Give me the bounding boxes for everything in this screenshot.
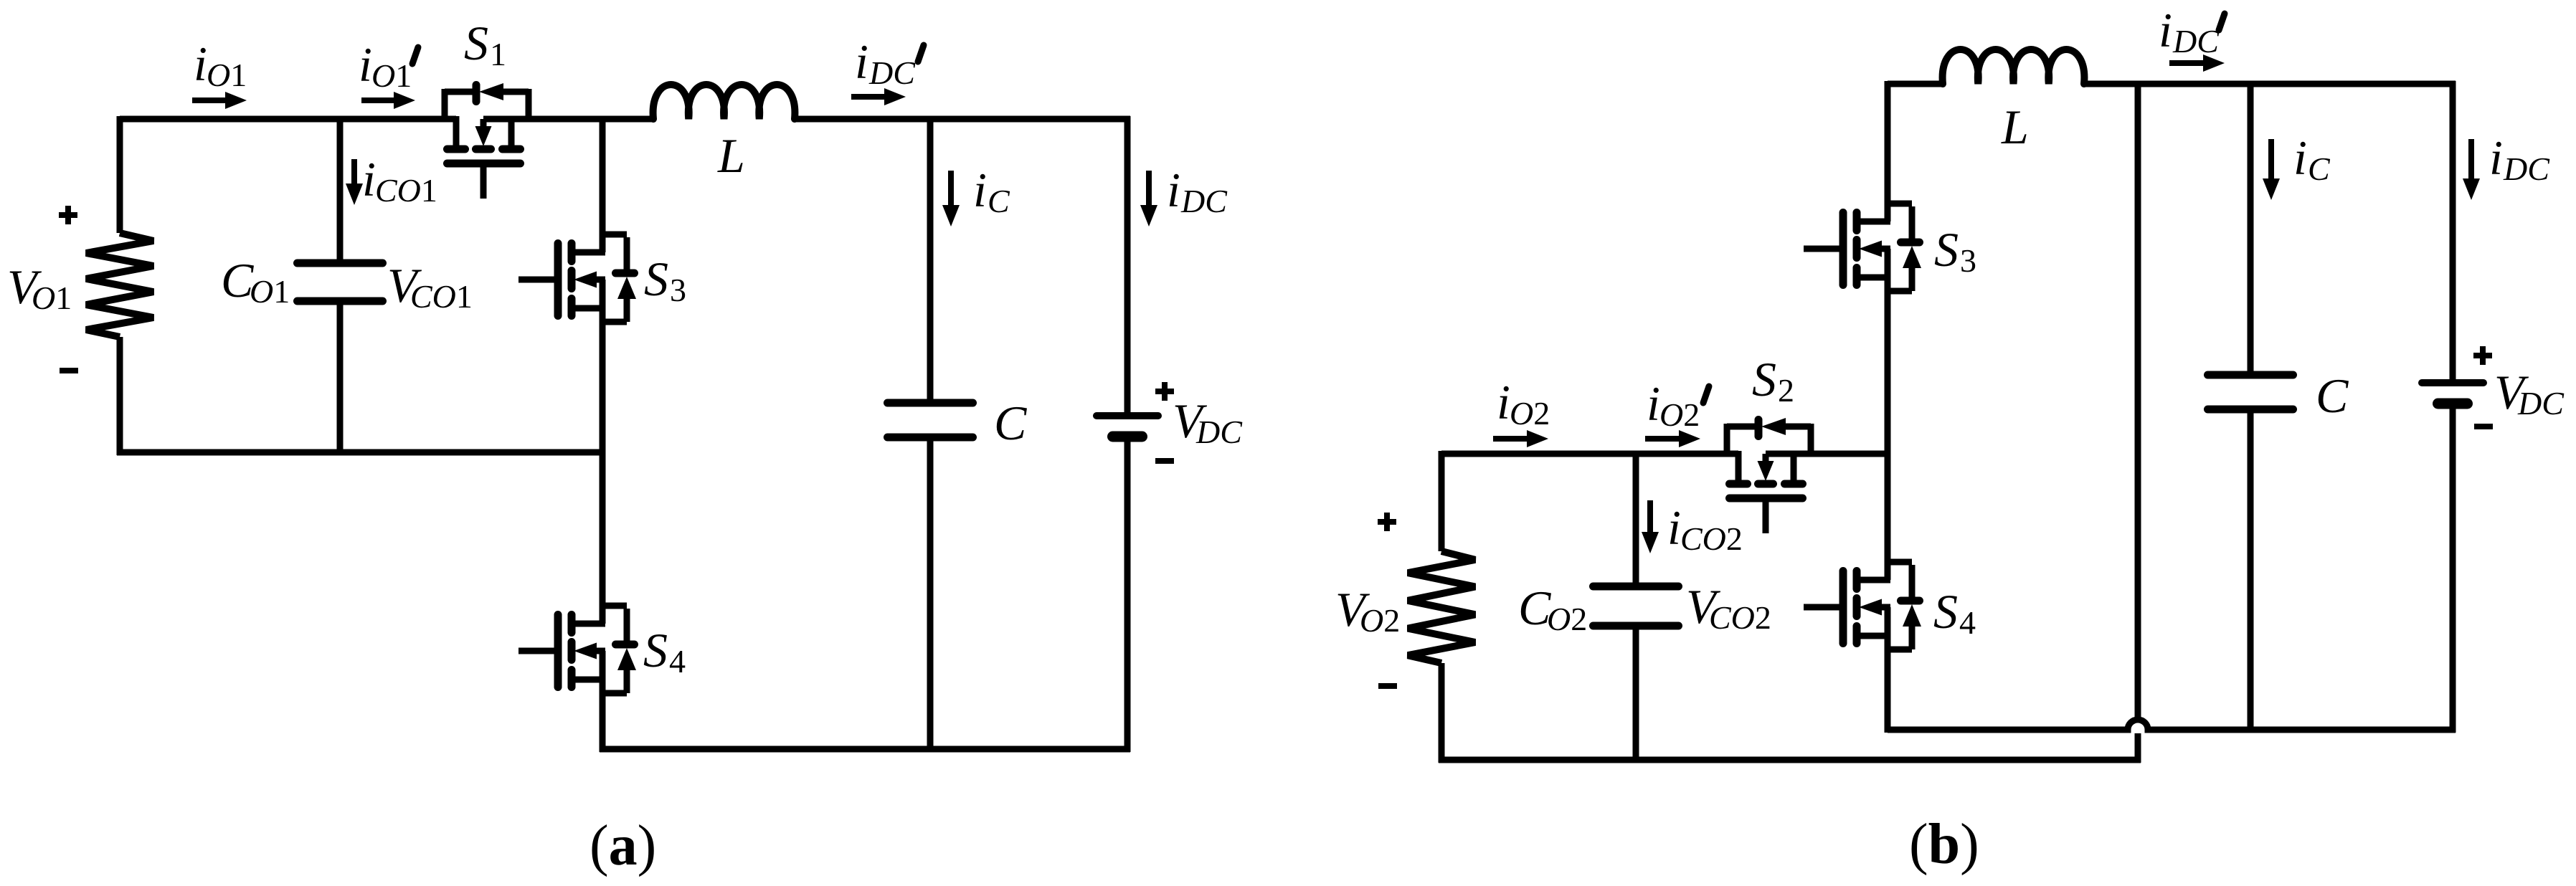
transistor S4 source connection (a): [572, 677, 605, 683]
inductor L (a): [653, 85, 795, 119]
wire: Vdc branch lower (b): [2450, 404, 2456, 733]
current arrow iO2': [1645, 436, 1682, 442]
svg-text:DC: DC: [1180, 183, 1228, 219]
transistor S1 gate lead: [480, 163, 487, 199]
polarity + of Vo1: [59, 212, 77, 218]
transistor S4 gate lead (b): [1804, 604, 1843, 611]
transistor S3 body diode (a): [602, 232, 627, 238]
current arrow iO1: [192, 97, 228, 103]
wire: C branch upper (b): [2248, 84, 2254, 375]
resistor load Vo1: [86, 233, 153, 337]
svg-text:DC: DC: [1195, 414, 1243, 450]
svg-text:C: C: [2316, 368, 2349, 423]
svg-text:i: i: [1647, 376, 1660, 431]
svg-text:O1: O1: [32, 280, 72, 316]
inductor L (b): [1943, 49, 2085, 84]
svg-text:O2: O2: [1659, 396, 1700, 433]
svg-text:S: S: [1934, 222, 1959, 277]
transistor S3 substrate arrow (b): [1880, 246, 1890, 252]
transistor S2 drain connection: [1736, 451, 1742, 484]
current arrow iDC (a): [1146, 171, 1152, 208]
svg-text:3: 3: [670, 272, 686, 308]
wire: top rail left segment (a): [120, 116, 456, 123]
svg-text:DC: DC: [2517, 385, 2565, 421]
transistor S4 gate bar (b): [1839, 571, 1847, 644]
transistor S4 substrate arrow (b): [1880, 604, 1890, 611]
transistor S2 gate bar: [1730, 495, 1803, 502]
svg-text:i: i: [194, 37, 207, 91]
transistor S1 gate bar: [448, 160, 521, 168]
transistor S2 channel segments: [1730, 480, 1748, 488]
svg-text:3: 3: [1960, 242, 1976, 279]
svg-text:S: S: [1752, 352, 1776, 406]
wire: C branch lower (b): [2248, 409, 2254, 730]
wire: Vo2 branch upper (b): [1439, 451, 1445, 551]
svg-text:O1: O1: [207, 57, 247, 93]
wire: left branch lower (a): [117, 337, 123, 455]
svg-text:i: i: [362, 152, 376, 206]
svg-text:DC: DC: [2172, 23, 2220, 59]
wire: switching leg below S4 (b): [1885, 607, 1891, 733]
transistor S3 channel segments (a): [568, 244, 576, 262]
svg-text:CO1: CO1: [375, 172, 437, 209]
current arrow iCO1: [351, 159, 357, 186]
transistor S4 gate bar (a): [554, 615, 562, 687]
svg-text:2: 2: [1778, 372, 1794, 409]
transistor S3 gate bar (b): [1839, 213, 1847, 285]
wire: output loop top rail right (b): [1766, 451, 1890, 457]
transistor S4 channel segments (b): [1853, 571, 1861, 589]
svg-text:i: i: [359, 37, 372, 92]
battery Vdc (b): [2422, 379, 2483, 386]
transistor S4 body diode (a): [602, 603, 627, 609]
svg-text:i: i: [2489, 130, 2503, 185]
transistor S4 body diode (b): [1888, 559, 1912, 566]
transistor S1 substrate arrow: [480, 119, 487, 128]
wire: mid vertical branch upper (b): [2135, 84, 2141, 720]
transistor S3 gate lead (a): [518, 277, 558, 283]
polarity + of Vdc (a): [1155, 389, 1174, 394]
current arrow iC (a): [948, 171, 954, 208]
svg-text:S: S: [644, 252, 668, 306]
battery Vdc (a): [1097, 412, 1158, 419]
svg-text:(b): (b): [1909, 813, 1979, 876]
transistor S3 body diode (b): [1888, 201, 1912, 207]
wire: top rail right segment (a): [795, 116, 1130, 123]
transistor S1 drain connection: [453, 116, 460, 149]
transistor S3 channel segments (b): [1853, 213, 1861, 231]
wire: bottom wire of output loop (a): [117, 449, 605, 456]
svg-text:DC: DC: [2503, 151, 2550, 187]
wire: Co1 branch lower (a): [337, 301, 344, 452]
current arrow iDC' (a): [851, 94, 887, 100]
transistor S3 source connection (a): [572, 305, 605, 312]
polarity - of Vo2: [1378, 683, 1397, 689]
polarity + of Vo2: [1378, 519, 1396, 525]
wire: mid vertical branch lower (b): [2135, 733, 2141, 763]
transistor S3 drain connection (b): [1857, 219, 1890, 225]
svg-text:i: i: [2159, 3, 2172, 57]
polarity + of Vdc (b): [2473, 353, 2492, 358]
svg-text:1: 1: [490, 36, 506, 72]
svg-text:L: L: [2001, 100, 2029, 154]
svg-text:4: 4: [669, 643, 686, 680]
transistor S3 gate bar (a): [554, 244, 562, 316]
transistor S4 source connection (b): [1857, 633, 1890, 639]
wire: top rail right segment (b): [2084, 81, 2456, 87]
transistor S1 body diode: [442, 89, 448, 119]
wire: bottom rail (a): [600, 746, 1130, 753]
transistor S4 drain connection (b): [1857, 577, 1890, 583]
svg-text:S: S: [1933, 584, 1958, 639]
current arrow iO2: [1493, 436, 1530, 442]
wire: Vdc branch upper (b): [2450, 81, 2456, 383]
wire: switching leg S3 source to S4 drain (a): [600, 280, 606, 624]
transistor S2 gate lead: [1763, 498, 1769, 533]
svg-text:i: i: [855, 34, 868, 89]
svg-text:O2: O2: [1547, 601, 1587, 637]
wire: C branch lower (a): [927, 437, 934, 749]
svg-text:C: C: [2308, 151, 2331, 187]
wire: Co2 branch upper (b): [1633, 454, 1639, 586]
polarity - of Vdc (b): [2474, 424, 2493, 429]
transistor S2 body diode: [1724, 424, 1730, 454]
transistor S4 substrate arrow (a): [595, 648, 605, 654]
svg-text:S: S: [464, 16, 488, 70]
current arrow iO1': [361, 97, 397, 103]
current arrow iDC (b): [2468, 139, 2474, 181]
transistor S3 substrate arrow (a): [595, 277, 605, 283]
svg-text:L: L: [717, 128, 745, 183]
wire: output loop top rail left (b): [1441, 451, 1738, 457]
polarity - of Vo1: [60, 368, 78, 373]
svg-text:O1: O1: [371, 57, 412, 94]
svg-text:S: S: [643, 623, 668, 677]
capacitor C (b): [2208, 371, 2293, 379]
wire: left branch upper (a): [117, 116, 123, 233]
wire: output loop bottom wire (b): [1439, 757, 2141, 763]
resistor load Vo2: [1408, 551, 1475, 663]
wire: switching leg below S4 (a): [600, 651, 606, 752]
svg-text:O1: O1: [250, 273, 290, 310]
svg-text:i: i: [1667, 500, 1681, 555]
svg-text:(a): (a): [589, 814, 656, 877]
svg-text:C: C: [994, 396, 1027, 450]
wire: switching leg above S3 (b): [1885, 81, 1891, 221]
wire: Vdc branch upper (a): [1124, 116, 1131, 416]
svg-text:C: C: [988, 183, 1010, 219]
transistor S3 source connection (b): [1857, 275, 1890, 281]
svg-text:i: i: [1167, 163, 1180, 217]
svg-text:i: i: [2293, 130, 2307, 185]
transistor S2 substrate arrow: [1763, 454, 1769, 462]
wire: top rail left segment (b): [1888, 81, 1943, 87]
wire: bottom rail with crossover hop (b): [1888, 720, 2456, 730]
current arrow iCO2: [1647, 500, 1653, 535]
capacitor Co2: [1594, 583, 1679, 591]
wire: top rail middle segment (a): [483, 116, 654, 123]
wire: Co1 branch upper (a): [337, 119, 344, 263]
svg-text:DC: DC: [868, 54, 916, 91]
polarity - of Vdc (a): [1155, 458, 1174, 464]
svg-text:4: 4: [1959, 604, 1976, 641]
wire: switching leg S3 to S4 (b): [1885, 249, 1891, 580]
transistor S1 channel segments: [448, 146, 465, 153]
transistor S3 drain connection (a): [572, 249, 605, 256]
transistor S4 gate lead (a): [518, 648, 558, 654]
current arrow iDC' (b): [2169, 60, 2206, 66]
transistor S3 gate lead (b): [1804, 246, 1843, 252]
capacitor Co1: [298, 259, 383, 267]
svg-text:O2: O2: [1360, 602, 1400, 639]
transistor S4 drain connection (a): [572, 621, 605, 627]
wire: Vdc branch lower (a): [1124, 437, 1131, 752]
wire: C branch upper (a): [927, 119, 934, 403]
transistor S4 channel segments (a): [568, 615, 576, 633]
svg-text:O2: O2: [1510, 395, 1550, 432]
wire: switching leg above S3 (a): [600, 116, 606, 252]
capacitor C (a): [888, 399, 973, 407]
wire: Co2 branch lower (b): [1633, 626, 1639, 760]
transistor S1 source connection: [508, 116, 515, 149]
current arrow iC (b): [2268, 139, 2274, 181]
svg-text:i: i: [973, 163, 987, 217]
svg-text:CO1: CO1: [410, 278, 473, 315]
svg-text:CO2: CO2: [1680, 520, 1743, 557]
transistor S2 source connection: [1791, 451, 1797, 484]
svg-text:i: i: [1497, 375, 1510, 429]
svg-text:CO2: CO2: [1709, 599, 1771, 636]
wire: Vo2 branch lower (b): [1439, 663, 1445, 763]
